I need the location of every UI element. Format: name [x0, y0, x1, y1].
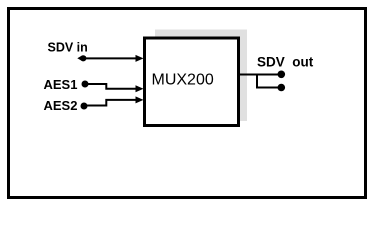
- svg-text:AES2: AES2: [44, 98, 78, 113]
- block U1 MUX200: [145, 38, 239, 126]
- border frame: [9, 9, 366, 198]
- svg-text:MUX200: MUX200: [152, 72, 214, 89]
- svg-text:SDV out: SDV out: [257, 55, 314, 70]
- svg-text:SDV in: SDV in: [48, 41, 88, 55]
- arrowhead SDV in: [136, 55, 144, 62]
- wire SDV in: [83, 57, 136, 59]
- wire SDV out lower: [257, 75, 279, 88]
- shadow of MUX200 box: [155, 30, 247, 122]
- node SDV out upper: [278, 71, 286, 79]
- wire AES1: [85, 84, 136, 89]
- wire AES2: [84, 100, 136, 106]
- node SDV in terminal: [80, 55, 86, 61]
- svg-text:AES1: AES1: [44, 77, 78, 92]
- node AES2 terminal: [81, 103, 88, 110]
- node AES1 terminal: [82, 81, 89, 88]
- arrowhead AES1: [136, 85, 144, 92]
- node SDV out lower: [278, 84, 286, 92]
- start tick SDV in: [77, 55, 82, 61]
- arrowhead AES2: [136, 96, 144, 103]
- wire SDV out upper: [239, 74, 279, 76]
